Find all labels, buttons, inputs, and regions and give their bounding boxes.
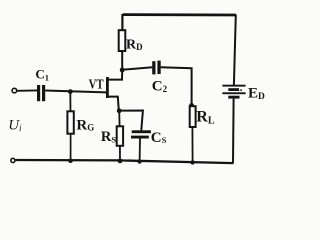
wire R_S top lead <box>118 111 120 127</box>
node C_S bottom junction <box>137 159 141 163</box>
wire R_D bottom to drain node <box>121 51 123 70</box>
wire R_D top lead <box>121 14 123 31</box>
node R_G bottom junction <box>68 158 73 163</box>
wire drain node to C2 <box>122 67 152 70</box>
capacitor C1 <box>37 85 45 101</box>
wire R_L bottom lead <box>191 127 193 163</box>
node source junction <box>117 108 122 113</box>
wire VT drain lead <box>108 70 122 80</box>
wire R_G bottom lead <box>70 134 72 161</box>
wire C2 to R_L corner <box>161 67 192 105</box>
resistor R_S <box>117 126 123 146</box>
wire R_G top lead <box>69 92 71 112</box>
node drain junction <box>120 68 125 73</box>
node R_L top junction <box>189 103 194 108</box>
wire VT source lead <box>108 97 119 111</box>
battery E_D <box>222 85 245 99</box>
svg-text:VT: VT <box>89 78 105 93</box>
wire input to C1 <box>17 89 37 91</box>
node R_S bottom junction <box>118 159 123 164</box>
battery polarity mark <box>240 89 242 91</box>
wire top rail <box>123 13 236 16</box>
transistor VT channel bar <box>106 77 109 98</box>
node R_L bottom junction <box>190 160 194 164</box>
terminal input bottom <box>11 158 15 162</box>
wire R_S bottom lead <box>119 146 121 161</box>
capacitor C2 <box>152 61 161 75</box>
wire bottom rail <box>16 160 234 163</box>
wire battery top lead <box>234 15 236 86</box>
resistor R_L <box>190 106 196 127</box>
wire C_S bottom lead <box>139 139 141 162</box>
wire battery bottom lead <box>232 99 235 164</box>
resistor R_D <box>119 30 126 51</box>
wire gate (C1 to VT gate) <box>45 91 106 93</box>
node R_G top junction <box>68 89 73 94</box>
resistor R_G <box>67 111 73 133</box>
capacitor C_S <box>131 130 151 138</box>
terminal input top <box>12 88 17 93</box>
wire source node to C_S <box>119 111 143 131</box>
